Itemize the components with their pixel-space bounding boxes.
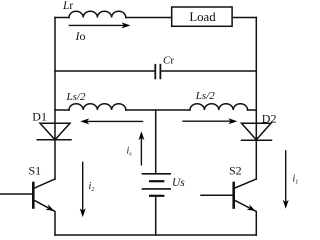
wire bottom (55, 234, 256, 236)
svg-text:D2: D2 (262, 111, 277, 125)
diode D2 (242, 123, 272, 140)
wire top-left horizontal (55, 17, 69, 19)
svg-text:Ls/2: Ls/2 (195, 90, 215, 102)
svg-text:S1: S1 (29, 164, 42, 178)
arrow is (up) (138, 131, 144, 165)
wire Cr row left (55, 70, 155, 72)
svg-text:Io: Io (75, 29, 86, 43)
diode D1 (37, 123, 71, 140)
svg-text:Us: Us (172, 177, 185, 189)
svg-text:Ls/2: Ls/2 (66, 91, 86, 103)
wire right rail (255, 18, 257, 180)
wire left rail (54, 18, 56, 180)
wire Ls2 row right stub (248, 109, 257, 111)
inductor Ls/2 right (190, 104, 248, 110)
inductor Lr (69, 11, 126, 17)
svg-text:Lr: Lr (62, 0, 73, 12)
wire Load to right rail (232, 17, 256, 19)
transistor S1 (0, 179, 55, 235)
transistor S2 (201, 179, 256, 235)
inductor Ls/2 left (69, 104, 126, 110)
arrow Io (69, 22, 130, 28)
load box (172, 7, 232, 26)
battery Us (143, 173, 171, 175)
svg-text:Load: Load (189, 10, 216, 24)
wire Lr to Load (126, 17, 172, 19)
arrow left (under Ls/2 left) (80, 118, 142, 124)
wire Ls2 row center (126, 109, 190, 111)
arrow right (under Ls/2 right) (183, 118, 237, 124)
wire Ls2 row left stub (55, 109, 69, 111)
wire Cr row right (161, 70, 256, 72)
svg-text:D1: D1 (32, 110, 47, 124)
arrow i2 (down) (80, 162, 86, 217)
arrow i1 (down) (283, 151, 289, 209)
svg-text:S2: S2 (229, 164, 242, 178)
wire battery bottom (155, 196, 157, 235)
wire center branch (155, 110, 157, 174)
capacitor Cr (155, 65, 160, 79)
svg-text:Cr: Cr (163, 55, 174, 67)
